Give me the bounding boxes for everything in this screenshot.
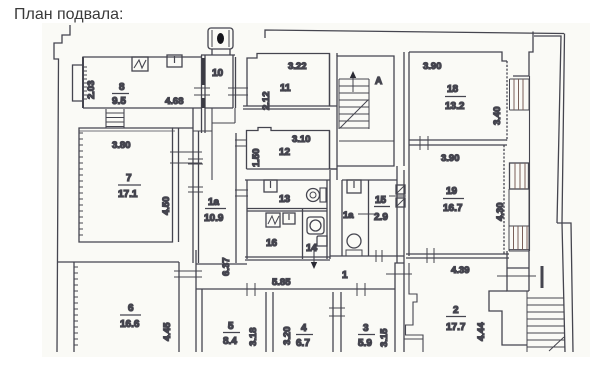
scan background [42,23,590,357]
svg-text:3.22: 3.22 [288,61,307,72]
room 19 [406,145,509,258]
svg-text:7: 7 [126,173,132,184]
svg-text:12: 12 [279,147,291,158]
room 12 [247,128,338,170]
svg-text:4.50: 4.50 [161,197,172,216]
outer wall bottom right [557,223,573,352]
svg-text:6.37: 6.37 [221,258,232,277]
door ticks rooms 4/3 [329,308,345,316]
stairs between room 8 and room 7 [106,109,124,128]
wc 1a toilet [346,234,362,256]
outer boundary top-right [265,30,564,38]
svg-text:5: 5 [228,321,234,332]
svg-text:3.20: 3.20 [282,327,293,346]
room 13 sink [264,180,277,192]
building east wall [529,76,531,251]
outer wall right double [534,34,565,224]
svg-text:3.90: 3.90 [423,61,442,72]
svg-text:18: 18 [447,84,459,95]
door tick corridor / bath hall [376,250,412,274]
bath cluster bottom wall [245,256,404,260]
svg-text:16.6: 16.6 [120,319,140,330]
entrance box 6 at top [208,28,233,55]
svg-text:1а: 1а [208,197,220,208]
svg-text:4.39: 4.39 [451,265,470,276]
room 16 [266,209,303,259]
svg-text:2.9: 2.9 [374,212,388,223]
svg-text:17.7: 17.7 [446,322,466,333]
wall rooms 5/4 [266,292,273,352]
svg-text:14: 14 [306,243,318,254]
outer boundary left [54,25,70,352]
building corner step [513,32,533,77]
svg-text:19: 19 [446,186,458,197]
room 3 [358,323,390,349]
room 14 box [317,236,327,246]
svg-text:4: 4 [301,323,307,334]
door ticks room 18/19 [420,136,428,150]
svg-text:А: А [375,76,382,87]
door ticks room 5 [247,283,255,296]
room 14 sink [307,217,324,234]
svg-text:10.9: 10.9 [204,213,224,224]
svg-text:1: 1 [342,270,348,281]
svg-text:4.44: 4.44 [476,322,487,341]
svg-text:5.85: 5.85 [272,277,291,288]
room 16 washer [266,213,280,227]
svg-text:4.45: 4.45 [162,322,173,341]
right side window box [510,163,529,189]
svg-text:4.68: 4.68 [165,96,184,107]
door ticks corridor / room 12 [235,140,247,146]
room 13 [247,180,327,259]
svg-text:5.9: 5.9 [358,338,372,349]
duct below room 10 [193,108,235,180]
svg-text:2.03: 2.03 [86,81,97,100]
door ticks room 7 / corridor [170,152,202,163]
door ticks corridor left [188,159,203,192]
entrance arrow [311,246,317,269]
vent shafts [396,185,405,207]
room 8 vent box [167,55,182,67]
svg-text:11: 11 [280,83,291,94]
svg-text:13: 13 [279,194,291,205]
room 5 [223,321,259,347]
room 10 [201,55,236,133]
room 16 box [283,213,295,224]
room 14 [306,243,318,254]
room 18 left wall [404,52,409,256]
corridor 1a walls [193,108,236,276]
section marker I [541,266,544,288]
room 13 toilet [307,188,327,202]
wall rooms 4/3 [333,292,341,352]
room 8 / room 10 thick wall [202,58,205,108]
svg-text:2: 2 [453,305,459,316]
svg-text:13.2: 13.2 [445,101,465,112]
corridor bottom wall [196,263,247,265]
right side stair upper [510,79,530,110]
room 2 right step wall [489,291,527,345]
svg-text:3.40: 3.40 [492,107,503,126]
svg-text:6.7: 6.7 [296,338,310,349]
room 8 window symbol [132,57,148,71]
svg-text:9.5: 9.5 [112,96,126,107]
room 18 [409,52,507,145]
wc 1a room [342,180,369,256]
room 4 [282,323,313,349]
svg-text:16: 16 [266,238,278,249]
corridor 1 [342,263,404,352]
door ticks room 6 / corridor [174,271,202,277]
svg-text:3.18: 3.18 [248,328,259,347]
wc 1a sink [347,180,361,193]
svg-text:15: 15 [375,195,387,206]
title [14,6,123,24]
svg-text:1.50: 1.50 [251,149,262,168]
room 11 [243,54,330,111]
wall between room 11/12 and shaft [330,53,338,180]
stairs bottom right [527,291,565,352]
svg-text:1а: 1а [343,210,354,221]
door tick 1a/15 [358,213,374,215]
svg-text:3.10: 3.10 [292,134,311,145]
room 6 right double wall [196,250,202,352]
room 8 bay window [73,65,88,101]
room 8 [83,57,201,108]
door ticks room 3 [357,283,365,296]
landing box right [497,251,536,291]
svg-text:3.80: 3.80 [112,140,131,151]
svg-text:10: 10 [212,68,224,79]
svg-text:8: 8 [119,82,125,93]
room 6 [57,262,179,352]
door ticks room 10 / room 11 [228,88,248,95]
bottom rooms top wall [196,288,395,290]
staircase A shaft [337,56,394,166]
door ticks room 19 / room 2 [427,248,434,263]
door ticks corridor / room 13 [235,190,248,196]
vent shaft notches room 2 left [404,263,423,352]
bath cluster top wall [245,170,397,259]
right side stair mid [509,189,529,251]
svg-text:3.90: 3.90 [441,153,460,164]
svg-text:17.1: 17.1 [118,189,138,200]
svg-text:3: 3 [363,323,369,334]
room 2 [446,265,487,341]
svg-text:16.7: 16.7 [443,203,463,214]
room 15 [374,166,406,263]
svg-text:3.15: 3.15 [379,328,390,347]
svg-text:4.30: 4.30 [495,203,506,222]
svg-text:8.4: 8.4 [223,336,237,347]
svg-text:6: 6 [128,303,134,314]
door ticks room 8 / room 10 [194,88,210,95]
room 7 [79,128,193,242]
dimension 5.85 [272,277,291,288]
svg-text:2.12: 2.12 [261,92,272,111]
